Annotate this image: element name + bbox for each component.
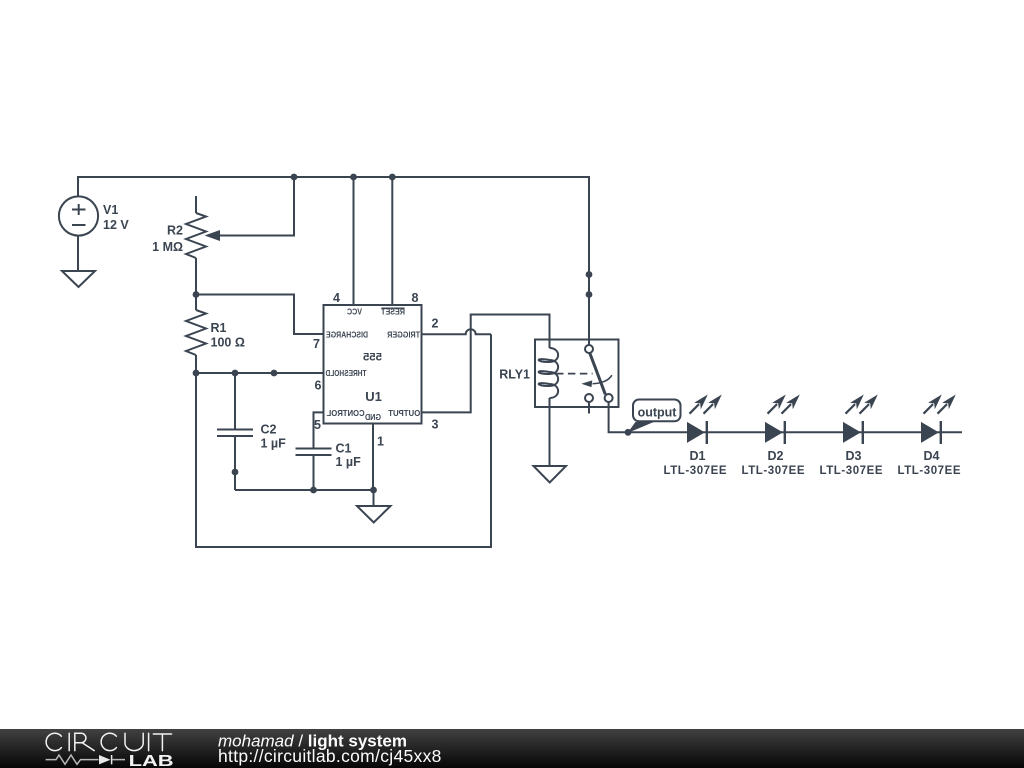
svg-text:RESET: RESET [380, 307, 405, 317]
svg-text:2: 2 [432, 317, 439, 331]
svg-text:C1: C1 [336, 442, 352, 456]
svg-text:8: 8 [412, 291, 419, 305]
svg-text:RLY1: RLY1 [499, 368, 530, 382]
svg-text:http://circuitlab.com/cj45xx8: http://circuitlab.com/cj45xx8 [218, 746, 442, 766]
svg-text:12 V: 12 V [103, 218, 129, 232]
svg-text:U1: U1 [365, 389, 382, 404]
svg-text:D1: D1 [690, 449, 706, 463]
svg-text:CONTROL: CONTROL [327, 408, 365, 418]
svg-text:1 µF: 1 µF [261, 437, 287, 451]
svg-text:R2: R2 [167, 224, 183, 238]
svg-text:D4: D4 [924, 449, 940, 463]
svg-text:R1: R1 [211, 321, 227, 335]
svg-text:C2: C2 [261, 423, 277, 437]
svg-text:6: 6 [315, 379, 322, 393]
svg-text:LAB: LAB [129, 753, 174, 768]
svg-text:D2: D2 [768, 449, 784, 463]
svg-text:OUTPUT: OUTPUT [387, 408, 420, 418]
svg-text:TRIGGER: TRIGGER [387, 330, 420, 340]
svg-text:3: 3 [432, 418, 439, 432]
svg-text:D3: D3 [846, 449, 862, 463]
svg-text:VCC: VCC [347, 307, 362, 317]
svg-text:output: output [638, 406, 678, 420]
svg-text:7: 7 [313, 337, 320, 351]
svg-text:555: 555 [363, 352, 382, 364]
svg-text:GND: GND [365, 412, 381, 422]
svg-text:V1: V1 [103, 203, 118, 217]
svg-text:1: 1 [377, 435, 384, 449]
svg-text:LTL-307EE: LTL-307EE [820, 465, 883, 477]
svg-text:LTL-307EE: LTL-307EE [742, 465, 805, 477]
svg-text:LTL-307EE: LTL-307EE [898, 465, 961, 477]
svg-text:4: 4 [333, 291, 340, 305]
svg-text:1 µF: 1 µF [336, 455, 362, 469]
svg-text:THRESHOLD: THRESHOLD [326, 368, 367, 378]
svg-text:LTL-307EE: LTL-307EE [664, 465, 727, 477]
svg-text:100 Ω: 100 Ω [211, 336, 245, 350]
svg-text:DISCHARGE: DISCHARGE [326, 330, 368, 340]
svg-text:5: 5 [314, 418, 321, 432]
svg-text:1 MΩ: 1 MΩ [152, 240, 183, 254]
